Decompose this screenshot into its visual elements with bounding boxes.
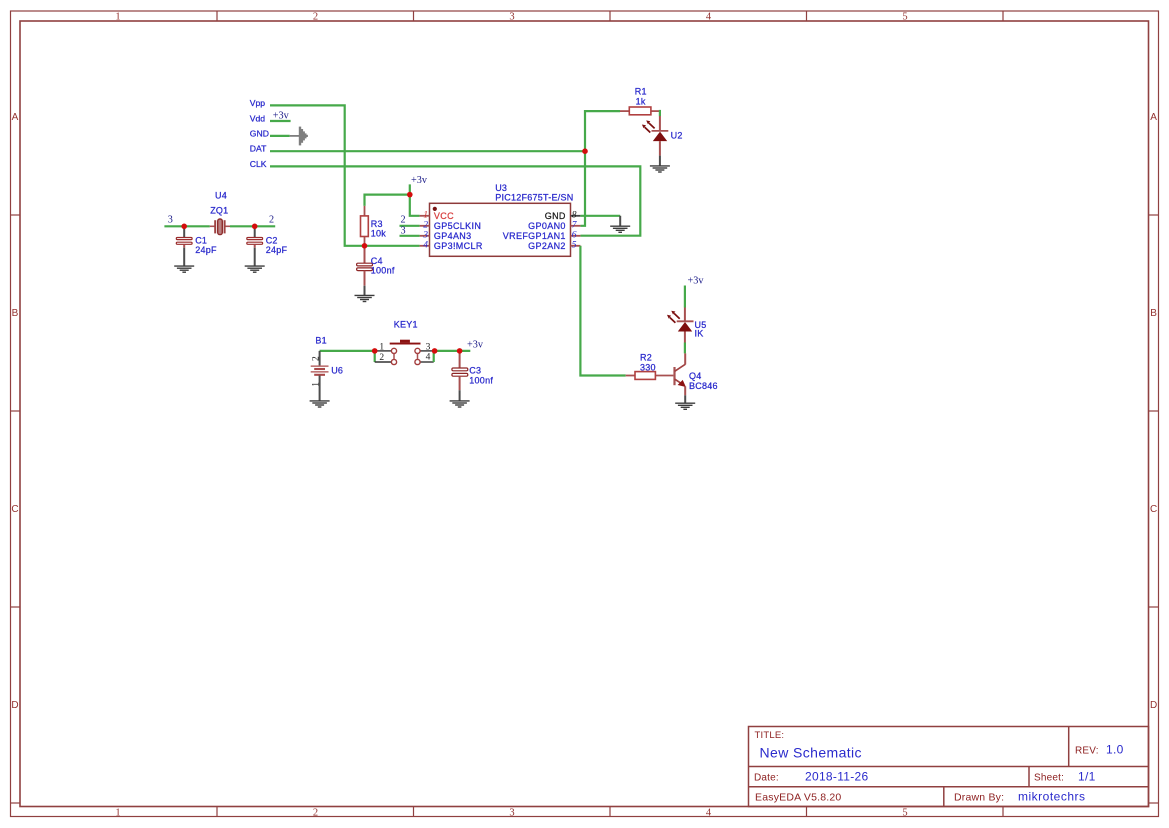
- svg-text:U2: U2: [671, 131, 683, 141]
- label PIC12F675T-E/SN: [495, 192, 573, 202]
- wire pin8 to ground: [580, 215, 620, 217]
- wire GND stub: [270, 135, 290, 137]
- wire Vdd stub: [270, 120, 291, 122]
- wire U5 to Q4 collector: [684, 343, 686, 354]
- netflag +3v on Vdd: [273, 111, 290, 122]
- pin number 8: [572, 211, 577, 221]
- pin name GP0AN0: [528, 221, 566, 231]
- svg-text:+3v: +3v: [411, 175, 428, 186]
- svg-text:1: 1: [379, 343, 384, 353]
- svg-text:3: 3: [168, 214, 173, 225]
- pin 1 stub: [420, 215, 430, 217]
- Date: label: [754, 773, 779, 784]
- svg-text:GND: GND: [250, 128, 269, 138]
- pin name VCC: [434, 211, 454, 221]
- label KEY1: [394, 320, 418, 330]
- pin name GP2AN2: [528, 241, 566, 251]
- svg-text:R3: R3: [371, 219, 383, 229]
- svg-text:U3: U3: [495, 183, 507, 193]
- wire pin5 to R2: [580, 246, 625, 376]
- ground at U2: [650, 156, 670, 172]
- label ZQ1: [210, 205, 228, 215]
- svg-text:24pF: 24pF: [195, 245, 217, 255]
- svg-text:C3: C3: [469, 365, 481, 375]
- label U2: [671, 131, 683, 141]
- label R2: [640, 352, 652, 362]
- svg-text:PIC12F675T-E/SN: PIC12F675T-E/SN: [495, 192, 573, 202]
- svg-text:2: 2: [401, 214, 406, 225]
- pin name GND: [545, 211, 566, 221]
- svg-text:100nf: 100nf: [371, 266, 395, 276]
- wire +3v stub U5: [684, 286, 686, 308]
- net number 2: [269, 214, 274, 225]
- net port CLK label: [250, 159, 267, 169]
- value 330: [640, 363, 656, 373]
- netflag +3v at R3: [411, 175, 428, 186]
- svg-text:BC846: BC846: [689, 381, 718, 391]
- ground at C1: [174, 266, 194, 272]
- svg-text:EasyEDA V5.8.20: EasyEDA V5.8.20: [755, 791, 841, 803]
- svg-text:1: 1: [115, 808, 120, 819]
- key pin number 4: [426, 353, 431, 363]
- svg-text:3: 3: [426, 343, 431, 353]
- svg-text:4: 4: [423, 240, 428, 250]
- pin name GP3!MCLR: [434, 241, 483, 251]
- resistor R2: [626, 372, 674, 380]
- svg-text:2: 2: [311, 356, 321, 361]
- pin number 5: [572, 240, 577, 250]
- wire CLK to pin6: [270, 166, 640, 235]
- pin 7 stub: [571, 225, 581, 227]
- capacitor C2: [247, 226, 263, 266]
- svg-text:DAT: DAT: [250, 144, 267, 154]
- Sheet value 1/1: [1078, 770, 1096, 784]
- junction R3/C4/Vpp: [362, 243, 368, 249]
- net stub 2 at pin2: [400, 225, 420, 227]
- key KEY1: [375, 340, 435, 365]
- netflag GND arrow: [290, 127, 307, 146]
- label U3: [495, 183, 507, 193]
- svg-text:+3v: +3v: [273, 111, 290, 122]
- svg-text:U6: U6: [331, 365, 343, 375]
- LED U2: [642, 116, 668, 156]
- svg-text:C4: C4: [371, 256, 383, 266]
- pin number 1: [423, 211, 428, 221]
- svg-text:2: 2: [269, 214, 274, 225]
- svg-text:1/1: 1/1: [1078, 770, 1096, 784]
- pin 3 stub: [420, 235, 430, 237]
- junction crystal left: [181, 224, 187, 230]
- svg-text:4: 4: [706, 808, 712, 819]
- key pin number 1: [379, 343, 384, 353]
- capacitor C3: [452, 351, 468, 401]
- svg-text:KEY1: KEY1: [394, 320, 418, 330]
- REV value 1.0: [1106, 743, 1124, 757]
- frame column ticks bottom: [217, 807, 1003, 817]
- label Q4: [689, 371, 702, 381]
- svg-text:D: D: [11, 700, 18, 711]
- net port GND label: [250, 128, 269, 138]
- pin 4 stub: [420, 245, 430, 247]
- svg-text:mikrotechrs: mikrotechrs: [1018, 789, 1086, 803]
- junction +3v: [407, 192, 413, 198]
- netflag +3v at U5: [688, 276, 705, 287]
- svg-text:New Schematic: New Schematic: [760, 745, 862, 761]
- label U4: [215, 190, 227, 200]
- net port Vpp label: [250, 98, 266, 108]
- label C2: [266, 236, 278, 246]
- frame row ticks right: [1149, 215, 1159, 803]
- net stub number 3: [401, 226, 406, 237]
- svg-text:GP5CLKIN: GP5CLKIN: [434, 221, 481, 231]
- label C4: [371, 256, 383, 266]
- net stub 3 at pin3: [400, 235, 420, 237]
- resistor R3: [361, 206, 369, 246]
- wire +3v stub to pin1: [410, 184, 420, 215]
- frame row ticks left: [11, 215, 21, 803]
- value 10k: [371, 229, 387, 239]
- Drawn By value: [1018, 789, 1086, 803]
- svg-text:10k: 10k: [371, 229, 387, 239]
- svg-text:6: 6: [572, 230, 577, 240]
- svg-text:Sheet:: Sheet:: [1034, 773, 1064, 784]
- pin 6 stub: [571, 235, 581, 237]
- label B1: [315, 336, 327, 346]
- value 100nf: [469, 376, 493, 386]
- ground at C4: [355, 295, 375, 301]
- pin name GP4AN3: [434, 231, 472, 241]
- svg-text:Vdd: Vdd: [250, 114, 266, 124]
- frame column numbers bottom: [115, 808, 907, 819]
- svg-text:R1: R1: [635, 87, 647, 97]
- pin name VREFGP1AN1: [503, 231, 566, 241]
- net stub number 2: [401, 214, 406, 225]
- wire crystal right: [230, 225, 275, 227]
- svg-text:1: 1: [115, 12, 120, 23]
- svg-text:2: 2: [313, 808, 318, 819]
- svg-text:C2: C2: [266, 236, 278, 246]
- svg-text:C1: C1: [195, 236, 207, 246]
- svg-text:8: 8: [572, 211, 577, 221]
- ground at pin8: [610, 216, 630, 233]
- net number 3: [168, 214, 173, 225]
- LED U5: [667, 308, 694, 343]
- svg-text:GP2AN2: GP2AN2: [528, 241, 566, 251]
- pin number 3: [422, 230, 428, 240]
- svg-text:100nf: 100nf: [469, 376, 493, 386]
- net port DAT label: [250, 144, 267, 154]
- svg-text:B: B: [1150, 308, 1157, 319]
- svg-text:Drawn By:: Drawn By:: [954, 791, 1004, 803]
- svg-text:GP3!MCLR: GP3!MCLR: [434, 241, 483, 251]
- wire DAT: [270, 150, 585, 152]
- svg-text:3: 3: [401, 226, 406, 237]
- svg-text:1: 1: [423, 211, 428, 221]
- pin number 7: [572, 220, 578, 230]
- capacitor C4: [357, 246, 373, 295]
- Sheet: label: [1034, 773, 1064, 784]
- IC U3 PIC12F675T-E/SN body: [430, 203, 571, 256]
- svg-text:B: B: [12, 308, 19, 319]
- svg-text:TITLE:: TITLE:: [755, 730, 785, 741]
- wire crystal left: [164, 225, 209, 227]
- svg-text:C: C: [11, 504, 18, 515]
- pin 5 stub: [571, 245, 581, 247]
- svg-text:5: 5: [572, 240, 577, 250]
- svg-text:GND: GND: [545, 211, 566, 221]
- net port Vdd label: [250, 114, 266, 124]
- frame column numbers top: [115, 12, 907, 23]
- transistor Q4: [675, 353, 686, 395]
- crystal ZQ1: [210, 219, 230, 235]
- wire Vpp to pin4: [270, 105, 420, 245]
- ground at C2: [245, 266, 265, 272]
- ground at B1: [310, 401, 330, 407]
- svg-text:+3v: +3v: [688, 276, 705, 287]
- svg-text:B1: B1: [315, 336, 327, 346]
- svg-text:Vpp: Vpp: [250, 98, 266, 108]
- title block outline: [749, 727, 1149, 807]
- svg-text:4: 4: [426, 353, 431, 363]
- svg-text:R2: R2: [640, 352, 652, 362]
- svg-text:1.0: 1.0: [1106, 743, 1124, 757]
- svg-text:REV:: REV:: [1075, 746, 1099, 757]
- svg-text:4: 4: [706, 12, 712, 23]
- Drawn By: label: [954, 791, 1004, 803]
- svg-text:2018-11-26: 2018-11-26: [805, 770, 869, 784]
- junction KEY1 left: [372, 348, 378, 354]
- key pin number 3: [426, 343, 431, 353]
- label U5: [695, 320, 707, 330]
- svg-text:3: 3: [509, 808, 514, 819]
- svg-text:2: 2: [313, 12, 318, 23]
- svg-text:1: 1: [311, 382, 321, 387]
- junction C3: [457, 348, 463, 354]
- svg-text:5: 5: [902, 12, 907, 23]
- netflag +3v at C3: [467, 339, 484, 350]
- key pin number 2: [379, 353, 384, 363]
- svg-text:VREFGP1AN1: VREFGP1AN1: [503, 231, 566, 241]
- pin name GP5CLKIN: [434, 221, 481, 231]
- svg-text:Q4: Q4: [689, 371, 702, 381]
- pin number 4: [423, 240, 428, 250]
- frame row letters right: [1150, 112, 1157, 711]
- svg-text:3: 3: [422, 230, 428, 240]
- svg-text:+3v: +3v: [467, 339, 484, 350]
- svg-text:D: D: [1150, 700, 1157, 711]
- svg-text:GP0AN0: GP0AN0: [528, 221, 566, 231]
- svg-text:2: 2: [423, 220, 428, 230]
- wire B1 to KEY1: [320, 350, 375, 352]
- svg-text:Date:: Date:: [754, 773, 779, 784]
- label C1: [195, 236, 207, 246]
- pin number 6: [572, 230, 577, 240]
- svg-text:24pF: 24pF: [266, 245, 288, 255]
- REV: label: [1075, 746, 1099, 757]
- EasyEDA version: [755, 791, 841, 803]
- title text New Schematic: [760, 745, 862, 761]
- label C3: [469, 365, 481, 375]
- Date value: [805, 770, 869, 784]
- wire R1 to U2: [659, 110, 661, 116]
- pin 2 stub: [420, 225, 430, 227]
- title block TITLE:: [755, 730, 785, 741]
- wire +3v to R3 top: [365, 195, 410, 206]
- value IK: [695, 329, 704, 339]
- svg-text:GP4AN3: GP4AN3: [434, 231, 472, 241]
- junction DAT/pin7: [582, 148, 588, 154]
- wire KEY1 to +3v: [435, 350, 471, 352]
- label R1: [635, 87, 647, 97]
- junction KEY1 right: [432, 348, 438, 354]
- ground at C3: [450, 401, 470, 407]
- svg-text:5: 5: [902, 808, 907, 819]
- frame column ticks top: [217, 11, 1003, 21]
- junction crystal right: [252, 224, 258, 230]
- pin number 2: [423, 220, 428, 230]
- svg-text:A: A: [1150, 112, 1157, 123]
- svg-text:VCC: VCC: [434, 211, 454, 221]
- label R3: [371, 219, 383, 229]
- svg-text:U4: U4: [215, 190, 227, 200]
- frame row letters left: [11, 112, 18, 711]
- resistor R1: [620, 107, 660, 115]
- capacitor C1: [176, 226, 192, 266]
- battery pin number 1: [311, 382, 321, 387]
- svg-text:C: C: [1150, 504, 1157, 515]
- value BC846: [689, 381, 718, 391]
- svg-text:IK: IK: [695, 329, 704, 339]
- battery pin number 2: [311, 356, 321, 361]
- value 100nf: [371, 266, 395, 276]
- value 24pF: [195, 245, 217, 255]
- value 24pF: [266, 245, 288, 255]
- value 1k: [636, 96, 646, 106]
- ground at Q4 emitter: [675, 395, 695, 409]
- svg-text:1k: 1k: [636, 96, 646, 106]
- svg-text:3: 3: [509, 12, 514, 23]
- svg-text:ZQ1: ZQ1: [210, 205, 228, 215]
- pin 8 stub: [571, 215, 581, 217]
- svg-text:CLK: CLK: [250, 159, 267, 169]
- svg-text:2: 2: [379, 353, 384, 363]
- svg-text:A: A: [12, 112, 19, 123]
- label U6: [331, 365, 343, 375]
- wire R1 left / DAT vertical to pin7: [580, 111, 620, 226]
- battery U6: [311, 351, 329, 401]
